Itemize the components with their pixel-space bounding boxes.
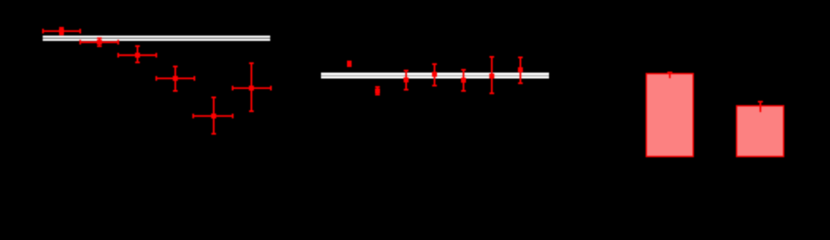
right panel bar 2 — [737, 106, 784, 157]
middle panel data point 1 — [347, 61, 352, 67]
right panel bar 1 — [646, 74, 693, 157]
middle panel data point 7 — [518, 57, 523, 83]
right panel bar 1 error bar — [667, 73, 672, 79]
middle panel data point 2 — [375, 87, 380, 95]
middle panel data point 5 — [461, 70, 466, 91]
middle panel data point 3 — [404, 71, 409, 90]
left panel data point 6 — [233, 63, 271, 111]
left panel data point 1 — [43, 28, 80, 35]
left panel data point 2 — [80, 38, 118, 46]
middle panel data point 4 — [432, 64, 437, 86]
middle panel data point 6 — [489, 57, 494, 93]
right panel bar 2 error bar — [758, 102, 763, 112]
left panel theory band (white double line) — [43, 36, 271, 41]
left panel data point 4 — [156, 67, 194, 91]
middle panel theory band (white double line) — [321, 73, 549, 79]
left panel data point 3 — [118, 46, 156, 62]
left panel data point 5 — [193, 97, 233, 133]
